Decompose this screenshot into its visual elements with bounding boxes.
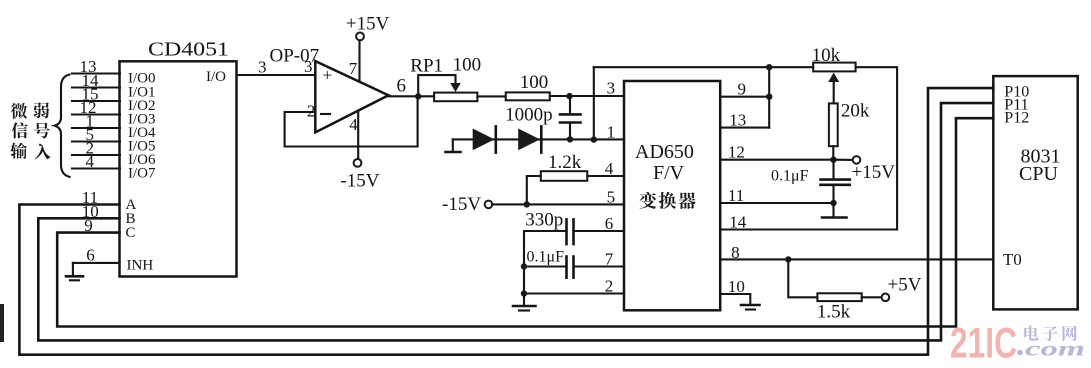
svg-text:100: 100 <box>520 72 549 93</box>
ground chain <box>523 294 525 306</box>
capacitor 0.1uF bypass <box>832 160 834 180</box>
svg-text:-15V: -15V <box>340 171 379 192</box>
IC U1 CD4051 multiplexer <box>120 61 237 276</box>
svg-text:F/V: F/V <box>653 162 685 184</box>
wire input 3 <box>72 113 120 115</box>
capacitor 0.1uF <box>565 257 568 278</box>
capacitor 330p <box>565 219 568 244</box>
svg-text:OP-07: OP-07 <box>270 46 320 67</box>
IC U4 8031 CPU <box>993 76 1077 309</box>
svg-text:4: 4 <box>605 159 614 178</box>
node <box>566 93 572 99</box>
svg-text:0.1μF: 0.1μF <box>771 168 809 185</box>
svg-text:100: 100 <box>453 55 482 76</box>
pin 6 INH wire <box>73 262 120 264</box>
svg-text:4: 4 <box>86 152 95 171</box>
wire 10k right to pin 14 <box>720 67 897 229</box>
svg-text:T0: T0 <box>1003 250 1022 269</box>
potentiometer RP1 100 <box>434 93 477 102</box>
pin 7 +15V supply <box>358 40 360 81</box>
scan artifact left edge <box>0 304 4 342</box>
svg-text:P12: P12 <box>1004 110 1029 127</box>
svg-text:330p: 330p <box>525 210 563 231</box>
wire CD4051 I/O out to op-amp <box>237 74 316 76</box>
svg-text:I/O7: I/O7 <box>128 166 156 182</box>
wire <box>477 95 505 97</box>
+15V terminal <box>834 159 853 161</box>
ground diode anode <box>452 139 454 151</box>
svg-text:6: 6 <box>605 214 614 233</box>
wire input 7 <box>72 167 120 169</box>
wire op-amp output <box>388 95 434 97</box>
resistor 20k <box>829 103 838 146</box>
wire pin 12 <box>720 159 833 161</box>
-15V terminal <box>485 201 493 209</box>
pin 4 -15V supply <box>357 111 359 159</box>
svg-text:CPU: CPU <box>1019 163 1058 185</box>
svg-text:21IC: 21IC <box>950 321 1017 368</box>
svg-text:CD4051: CD4051 <box>148 39 229 61</box>
wire input 6 <box>72 154 120 156</box>
svg-text:AD650: AD650 <box>635 141 694 163</box>
wire input 5 <box>72 140 120 142</box>
wire pin 11 <box>720 202 833 204</box>
svg-text:7: 7 <box>605 250 614 269</box>
potentiometer 10k <box>813 63 855 72</box>
svg-text:I/O: I/O <box>206 69 226 85</box>
capacitor 1000p <box>569 96 571 114</box>
wire pin 13 <box>720 127 769 129</box>
svg-text:INH: INH <box>127 258 154 274</box>
ground INH <box>66 275 83 278</box>
wire pin 8 to T0 <box>720 258 993 260</box>
svg-text:10k: 10k <box>812 45 841 66</box>
wire bus B to P11 <box>38 103 993 340</box>
wire bus A to P10 <box>19 88 993 355</box>
resistor 100 <box>506 92 550 100</box>
node vertical to top loop <box>591 136 597 142</box>
node output junction <box>415 93 421 99</box>
svg-text:1: 1 <box>607 123 616 142</box>
wire pin 2 <box>524 292 624 294</box>
wire input 1 <box>72 86 120 88</box>
wire input 2 <box>72 100 120 102</box>
svg-text:1.2k: 1.2k <box>548 152 582 173</box>
wire pin 1 line <box>453 138 624 140</box>
wire input 0 <box>72 72 120 74</box>
wire to AD650 pin 3 <box>550 95 624 97</box>
svg-text:5: 5 <box>607 187 616 206</box>
svg-text:0.1μF: 0.1μF <box>527 249 565 266</box>
wire vertical ground chain <box>523 231 525 294</box>
svg-text:4: 4 <box>349 115 358 134</box>
node 1000p to pin1 <box>567 136 573 142</box>
svg-text:+15V: +15V <box>852 162 896 183</box>
ground bypass <box>832 203 834 217</box>
op-amp U2 OP-07 <box>315 61 388 132</box>
svg-text:+: + <box>323 66 333 85</box>
svg-text:3: 3 <box>607 79 616 98</box>
wire top loop <box>594 66 813 68</box>
wire -15V to pin 5 <box>492 203 624 205</box>
resistor 1.5k pullup <box>788 259 817 297</box>
svg-text:RP1: RP1 <box>410 56 443 77</box>
svg-text:1.5k: 1.5k <box>817 302 851 323</box>
svg-text:20k: 20k <box>841 101 870 122</box>
svg-text:-15V: -15V <box>442 194 481 215</box>
wire input 4 <box>72 127 120 129</box>
svg-text:C: C <box>126 225 136 241</box>
resistor 1.2k <box>541 171 588 181</box>
brace <box>55 75 70 177</box>
svg-text:3: 3 <box>258 58 267 77</box>
diode D2 <box>518 129 540 151</box>
svg-text:7: 7 <box>349 59 358 78</box>
svg-text:+15V: +15V <box>346 14 390 35</box>
IC U3 AD650 F/V converter <box>624 81 720 310</box>
wire pin 10 to ground <box>720 294 750 304</box>
svg-text:6: 6 <box>86 246 95 265</box>
wire pin 9 <box>720 96 769 98</box>
wire vertical to top loop <box>593 67 595 139</box>
svg-text:6: 6 <box>397 76 407 97</box>
svg-text:+5V: +5V <box>888 275 922 296</box>
svg-text:2: 2 <box>605 277 614 296</box>
svg-text:com: com <box>1025 337 1085 361</box>
label: weak signal input (Chinese) <box>11 103 27 119</box>
diode D1 <box>473 129 495 151</box>
wire bus C to P12 <box>57 118 993 326</box>
svg-text:1000p: 1000p <box>505 105 552 126</box>
